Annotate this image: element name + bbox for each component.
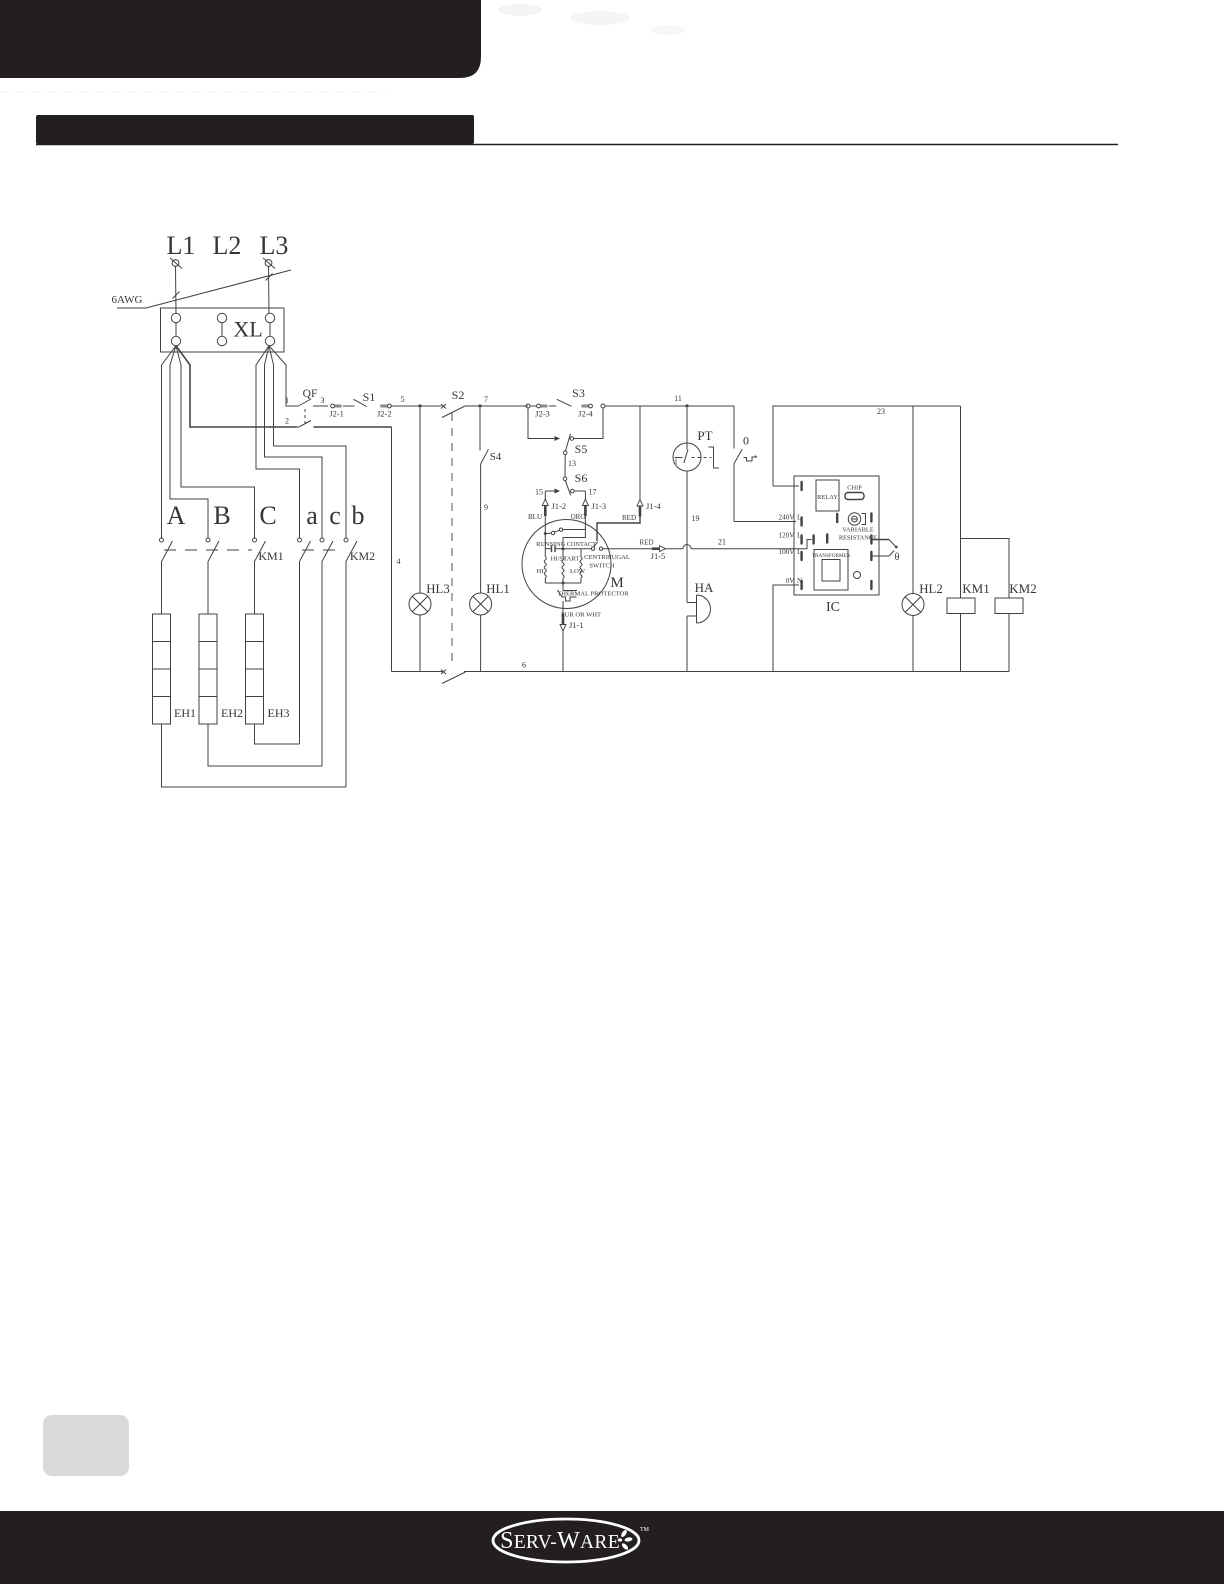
temperature sensor theta <box>873 539 889 541</box>
svg-text:9: 9 <box>484 503 488 512</box>
switch S4 <box>481 449 489 464</box>
switch S3 <box>557 399 572 406</box>
svg-text:J2-4: J2-4 <box>578 409 593 419</box>
svg-text:TRANSFORMER: TRANSFORMER <box>812 553 851 559</box>
connector J1-2 <box>544 505 547 516</box>
wire EH1 return <box>162 724 347 787</box>
wire L1 fan to phase B <box>170 346 208 538</box>
PT actuation bracket <box>709 447 720 468</box>
lamp HL3 <box>409 593 431 615</box>
motor running contact <box>544 532 547 535</box>
wire 6 to bus <box>562 631 564 672</box>
wire EH3 return <box>255 724 300 744</box>
svg-text:THERMAL PROTECTOR: THERMAL PROTECTOR <box>557 591 629 598</box>
motor start capacitor <box>544 534 546 549</box>
wire HA to bus <box>686 616 688 672</box>
KM2 mechanical link <box>302 549 344 551</box>
wire a to EH3 <box>299 562 301 745</box>
wire PUR OR WHT <box>562 601 564 614</box>
svg-text:HL2: HL2 <box>919 582 942 596</box>
wire PT branch <box>686 408 688 443</box>
connector J2-2 <box>380 405 387 408</box>
motor M outline <box>522 520 611 609</box>
wire KM2 to bus <box>1008 614 1010 672</box>
svg-text:1: 1 <box>285 396 289 405</box>
svg-text:SERV-WARE: SERV-WARE <box>500 1528 620 1554</box>
wire BLU into motor <box>544 516 546 532</box>
svg-text:L3: L3 <box>260 231 289 260</box>
svg-text:PUR OR WHT: PUR OR WHT <box>561 612 601 619</box>
wire 19 <box>686 471 688 549</box>
neutral bus main segment <box>464 671 1009 673</box>
svg-text:LOW: LOW <box>570 568 586 575</box>
wire to S2 <box>420 405 442 407</box>
internal slots <box>836 513 838 523</box>
svg-text:S6: S6 <box>575 471 588 485</box>
svg-text:A: A <box>167 501 186 530</box>
svg-text:4: 4 <box>397 557 401 566</box>
svg-text:13: 13 <box>568 459 576 468</box>
wire ORG into motor <box>584 516 586 530</box>
connector J1-1 <box>562 614 565 625</box>
svg-text:KM2: KM2 <box>350 549 375 563</box>
board mounting hole <box>854 572 861 579</box>
wire to J1-2 <box>544 491 546 499</box>
wire to S3 group <box>480 405 528 407</box>
connector J2-1 <box>331 404 335 408</box>
wire to centrifugal switch <box>555 548 591 550</box>
svg-text:S1: S1 <box>363 390 376 404</box>
pressure switch PT <box>673 443 701 471</box>
wire L3 drop <box>268 266 271 313</box>
switch S1 <box>354 399 367 406</box>
svg-text:19: 19 <box>692 514 700 523</box>
svg-text:0: 0 <box>743 434 749 448</box>
wire to J1-3 <box>584 491 586 499</box>
variable resistance (pot) <box>848 513 860 525</box>
terminal block XL <box>161 308 285 352</box>
wire KM1 to bus <box>960 614 962 672</box>
lamp HL2 <box>902 594 924 616</box>
wire to horn HA <box>686 549 688 603</box>
wire <box>343 405 355 407</box>
tick mark on L3 wire <box>266 274 273 281</box>
wire run contact to start winding <box>563 530 585 549</box>
svg-text:J2-3: J2-3 <box>535 409 550 419</box>
svg-text:S3: S3 <box>572 386 585 400</box>
svg-text:EH3: EH3 <box>268 706 290 720</box>
svg-text:S2: S2 <box>452 388 465 402</box>
svg-text:L1: L1 <box>167 231 196 260</box>
svg-text:C: C <box>259 501 276 530</box>
connector J1-4 <box>639 506 642 517</box>
svg-text:SWITCH: SWITCH <box>589 563 615 570</box>
svg-text:J2-2: J2-2 <box>377 409 392 419</box>
svg-text:L: L <box>797 514 801 522</box>
wire 9 to HL1 <box>480 464 482 593</box>
wire L3 fan to phase a <box>256 346 300 538</box>
contactor KM2 main contacts <box>298 538 302 542</box>
node: S3 branch right <box>601 404 605 408</box>
S2 mechanical link (dashed) <box>451 413 453 662</box>
wire 11 <box>605 405 686 407</box>
wire 2 to HL3 branch <box>314 426 392 428</box>
svg-text:J2-1: J2-1 <box>329 409 344 419</box>
S5 top contact <box>570 437 574 441</box>
net 23 : relay output to contactors <box>773 406 961 486</box>
svg-text:240V: 240V <box>779 514 796 522</box>
junction S4 branch <box>478 404 481 407</box>
svg-text:21: 21 <box>718 538 726 547</box>
svg-text:QF: QF <box>303 388 318 400</box>
svg-text:M: M <box>610 575 623 591</box>
neutral bus left segment <box>392 671 444 673</box>
svg-text:θ: θ <box>895 552 900 563</box>
svg-text:HI: HI <box>537 568 544 575</box>
contactor coil KM1 <box>947 598 975 614</box>
svg-text:L2: L2 <box>213 231 242 260</box>
wire 0V N to neutral bus <box>773 585 799 672</box>
svg-text:HL3: HL3 <box>426 582 449 596</box>
wire 21 <box>666 548 684 550</box>
footer band <box>0 1511 1224 1584</box>
wire relay output <box>773 485 799 487</box>
svg-text:2: 2 <box>285 417 289 426</box>
svg-text:J1-3: J1-3 <box>592 501 607 511</box>
wire L1 drop <box>175 266 178 313</box>
switch S5 <box>566 434 571 451</box>
switch S2 pole 1 <box>441 404 446 409</box>
wire 7 <box>465 405 480 407</box>
wire 5 <box>391 405 420 407</box>
wire b to EH1 <box>345 562 347 788</box>
wire branch to KM2 coil <box>961 539 1010 599</box>
KM1 mechanical link <box>164 549 252 551</box>
svg-text:6AWG: 6AWG <box>112 294 143 306</box>
wire 1 : L3 to QF pole 1 <box>269 346 298 406</box>
heating element EH2 <box>199 614 217 724</box>
svg-text:PT: PT <box>697 428 712 443</box>
wire L3 fan to phase c <box>265 346 323 538</box>
wire HL1 to bus <box>480 615 482 672</box>
svg-text:120V: 120V <box>779 532 796 540</box>
L1 entry terminal <box>172 260 179 267</box>
wire hop over PT line <box>683 545 691 549</box>
tick mark on L1 wire <box>173 292 180 299</box>
svg-text:HI/START: HI/START <box>551 556 580 563</box>
transformer on board <box>814 550 848 591</box>
svg-text:N: N <box>797 577 803 585</box>
svg-text:L: L <box>797 532 801 540</box>
svg-text:5: 5 <box>401 395 405 404</box>
svg-text:J1-5: J1-5 <box>651 551 666 561</box>
svg-text:b: b <box>352 501 365 530</box>
contactor coil KM2 <box>995 598 1023 614</box>
winding common rail <box>544 578 546 583</box>
svg-text:S5: S5 <box>575 442 588 456</box>
svg-text:J1-4: J1-4 <box>646 501 661 511</box>
bypass branch right side <box>574 408 603 439</box>
svg-text:3: 3 <box>321 396 325 405</box>
bypass branch to S5 <box>528 408 557 439</box>
wire to HL3 <box>419 408 421 593</box>
svg-text:J1-1: J1-1 <box>569 620 584 630</box>
node: S3 branch left <box>526 404 530 408</box>
contactor KM1 main contacts <box>160 538 164 542</box>
wire 11 continues <box>687 405 734 407</box>
switch S6 <box>563 477 567 481</box>
wire 2 : L1 to QF pole 2 <box>176 346 298 427</box>
svg-text:VARIABLE: VARIABLE <box>842 527 874 534</box>
svg-text:KM1: KM1 <box>962 581 989 596</box>
junction start coil <box>562 547 565 550</box>
wire 21 to IC 120V input <box>691 540 812 549</box>
lamp HL1 <box>470 593 492 615</box>
wire to IC 240V input <box>733 464 735 522</box>
connector <box>652 547 661 550</box>
heating element EH3 <box>246 614 264 724</box>
wire 13 <box>564 455 566 478</box>
svg-text:7: 7 <box>484 395 488 404</box>
wire to HL2 <box>912 406 914 593</box>
svg-text:J1-2: J1-2 <box>552 501 567 511</box>
svg-text:a: a <box>306 501 318 530</box>
svg-text:S4: S4 <box>490 451 502 463</box>
wire L1 fan to phase A <box>162 346 177 538</box>
svg-text:XL: XL <box>233 317 262 342</box>
wire to thermostat 0 <box>733 406 735 449</box>
svg-text:RED: RED <box>640 539 654 547</box>
svg-text:L: L <box>797 548 801 556</box>
svg-text:B: B <box>213 501 230 530</box>
wire L3 fan to phase b <box>269 346 346 538</box>
wire 4 down to neutral bus <box>391 427 393 672</box>
svg-text:c: c <box>329 501 341 530</box>
svg-text:6: 6 <box>522 661 526 670</box>
wire EH2 return <box>208 724 322 766</box>
svg-text:IC: IC <box>826 600 840 615</box>
relay on board <box>816 480 839 511</box>
wire RED to centrifugal switch <box>597 516 640 541</box>
connector J2-3 <box>530 405 537 407</box>
wire HL3 to bus <box>419 615 421 672</box>
control board IC box <box>794 476 879 595</box>
wire c to EH2 <box>321 562 323 767</box>
wire from net 11 to J1-4 <box>639 406 641 500</box>
svg-text:11: 11 <box>674 394 682 403</box>
PT dashed actuation line <box>692 457 712 459</box>
L3 entry terminal <box>265 260 272 267</box>
wire RED from centrifugal switch <box>603 548 651 550</box>
svg-text:EH1: EH1 <box>174 706 196 720</box>
svg-text:23: 23 <box>877 407 885 416</box>
svg-text:15: 15 <box>535 488 543 497</box>
svg-text:RELAY: RELAY <box>817 494 838 501</box>
svg-text:0V: 0V <box>786 577 796 585</box>
wire to KM1 coil <box>960 406 962 598</box>
svg-text:BLU: BLU <box>528 513 542 521</box>
wire HL2 to bus <box>912 616 914 672</box>
connector J2-4 <box>582 405 589 408</box>
thermal protector <box>562 583 564 591</box>
svg-text:TM: TM <box>640 1527 650 1533</box>
svg-text:17: 17 <box>589 488 597 497</box>
heating element EH1 <box>153 614 171 724</box>
junction PT branch <box>685 404 688 407</box>
svg-text:CENTRIFUGAL: CENTRIFUGAL <box>584 554 630 561</box>
wire L1 fan to phase C <box>176 346 255 538</box>
svg-text:CHIP: CHIP <box>847 485 862 492</box>
junction HL3 branch <box>418 404 421 407</box>
wire S4 branch <box>479 408 481 451</box>
centrifugal switch <box>591 547 594 550</box>
SERV-WARE logo <box>493 1519 639 1562</box>
svg-text:100V: 100V <box>779 548 796 556</box>
svg-text:KM2: KM2 <box>1009 581 1036 596</box>
svg-text:RED: RED <box>622 514 636 522</box>
IC terminals <box>800 481 802 491</box>
svg-text:HA: HA <box>695 580 714 595</box>
wire 240V <box>734 521 796 523</box>
svg-text:HL1: HL1 <box>486 582 509 596</box>
switch S2 pole 2 <box>441 670 446 675</box>
connector J1-3 <box>584 505 587 516</box>
svg-text:EH2: EH2 <box>221 706 243 720</box>
svg-text:KM1: KM1 <box>258 549 283 563</box>
